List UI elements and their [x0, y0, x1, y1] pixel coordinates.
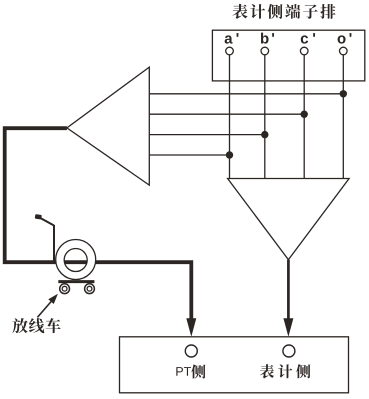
terminal label o' — [338, 35, 346, 43]
junction dot at c' — [301, 111, 308, 118]
meter side port circle — [283, 345, 295, 357]
reel handle end blob — [35, 214, 42, 219]
wire: thick cable from left triangle apex, down left side, to PT port — [5, 128, 192, 322]
wire: from combiner apex down to 表计侧 port — [287, 260, 290, 322]
terminal label c' — [301, 35, 308, 43]
wire: vertical from terminal o' down to triangle — [342, 55, 344, 179]
PT side port circle — [185, 345, 197, 357]
arrowhead into 表计侧 port — [283, 318, 293, 337]
reel handle vertical — [53, 225, 55, 262]
label: 表计侧 — [260, 364, 274, 378]
wire: horizontal from triangle to c' vertical — [149, 113, 304, 115]
left triangle (phase-splitter / amplifier symbol) — [67, 67, 149, 185]
terminal label b' — [261, 33, 269, 44]
junction dot at b' — [261, 131, 268, 138]
label: 放线车 (cable reel cart) — [12, 318, 27, 333]
wire: horizontal from triangle to b' vertical — [149, 134, 264, 136]
junction dot at o' — [340, 90, 347, 97]
wire: horizontal from triangle to o' vertical — [149, 93, 343, 95]
label: PT侧 — [176, 367, 183, 376]
terminal circle o' — [340, 47, 348, 55]
wire: vertical from terminal a' down to triangle — [229, 55, 231, 179]
terminal circle c' — [300, 47, 308, 55]
junction dot at a' — [226, 151, 233, 158]
terminal box (表计侧端子排 terminal strip outline) — [212, 30, 364, 81]
reel handle diagonal — [39, 217, 55, 226]
wire: horizontal from triangle to a' vertical — [149, 154, 229, 156]
cable reel donut — [56, 239, 96, 279]
pointer arrow to 放线车 — [37, 301, 51, 317]
arrowhead into PT port — [186, 318, 196, 337]
cart wheel right — [85, 284, 95, 294]
cart wheel left — [60, 284, 70, 294]
terminal circle b' — [261, 47, 269, 55]
wire: vertical from terminal b' down to triangle — [264, 55, 266, 179]
terminal circle a' — [226, 47, 234, 55]
terminal label a' — [225, 35, 233, 43]
label: 表计侧端子排 (meter-side terminal strip title) — [232, 4, 247, 19]
down triangle (combiner symbol) — [228, 179, 350, 260]
cart platform bar — [58, 280, 94, 283]
bottom junction box — [120, 337, 349, 393]
wire: vertical from terminal c' down to triangle — [303, 55, 305, 179]
